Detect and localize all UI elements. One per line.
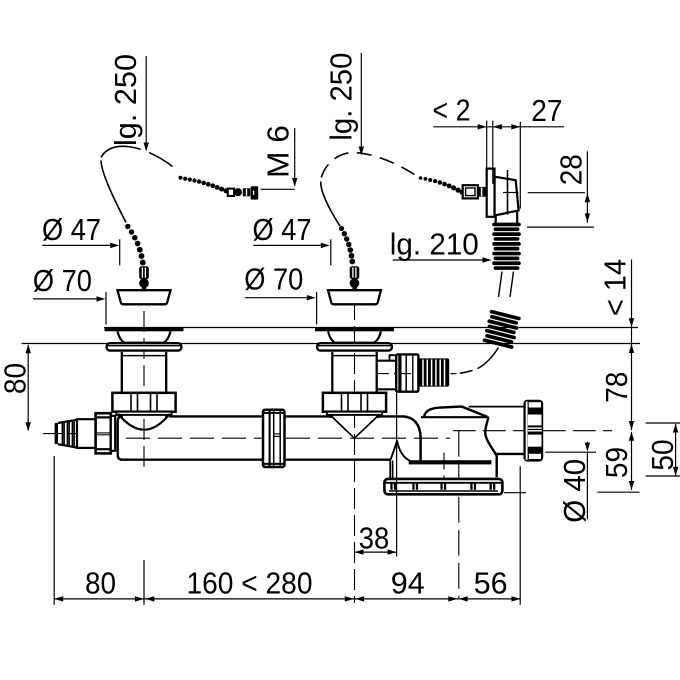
outlet tube top bbox=[469, 406, 524, 408]
wire: elbow inlet centerline bbox=[443, 453, 445, 499]
svg-text:50: 50 bbox=[645, 439, 680, 470]
svg-text:< 2: < 2 bbox=[433, 93, 471, 128]
svg-text:M 6: M 6 bbox=[261, 125, 296, 178]
wire: chain 1 slack arc (dashed) bbox=[101, 146, 173, 166]
chain 2 beads lower run bbox=[339, 226, 355, 265]
wire: trap body centerline bbox=[458, 431, 460, 598]
svg-text:Ø 70: Ø 70 bbox=[33, 263, 92, 298]
sink top line bbox=[104, 327, 638, 329]
pipe top line bbox=[118, 415, 121, 417]
node: left end extension line bbox=[53, 456, 55, 605]
chain 2 toggle at overflow plate bbox=[463, 185, 478, 198]
drain 1 body bbox=[121, 352, 123, 393]
svg-text:28: 28 bbox=[554, 154, 589, 185]
svg-text:56: 56 bbox=[474, 566, 508, 601]
svg-text:80: 80 bbox=[85, 566, 116, 601]
corrugated hose upper section bbox=[492, 223, 521, 270]
drain 1 tailpipe dome in pipe bbox=[121, 415, 123, 417]
trap cup dome top bbox=[424, 407, 488, 418]
svg-text:27: 27 bbox=[531, 93, 562, 128]
drain 2 body bbox=[331, 352, 333, 393]
wire: chain 2 slack arc (dashed) bbox=[321, 153, 417, 178]
hose barb inlet tip bbox=[55, 423, 58, 444]
overflow branch neck bbox=[377, 360, 397, 362]
svg-text:lg. 210: lg. 210 bbox=[390, 227, 479, 262]
svg-text:Ø 47: Ø 47 bbox=[42, 212, 101, 247]
overflow face plate bbox=[487, 169, 495, 217]
plug 1 chain knob bbox=[139, 266, 149, 279]
svg-text:Ø 70: Ø 70 bbox=[244, 261, 303, 296]
chain 1 beads upper run bbox=[179, 176, 229, 194]
svg-text:lg. 250: lg. 250 bbox=[108, 54, 143, 146]
wire: bottom dimension chain line bbox=[54, 598, 520, 600]
overflow branch male thread bbox=[418, 358, 449, 386]
strainer 1 taper bbox=[118, 331, 171, 342]
drain 2 tail cone in pipe bbox=[330, 415, 333, 417]
trap base flare cusp bbox=[391, 441, 411, 462]
pipe body left mouth bbox=[118, 416, 123, 459]
svg-text:< 14: < 14 bbox=[598, 259, 633, 316]
svg-text:94: 94 bbox=[391, 566, 425, 601]
node: drain 2 centerline bbox=[354, 272, 356, 603]
strainer flange 1 top bar bbox=[105, 327, 184, 331]
trap inlet fillet from pipe bbox=[403, 416, 421, 460]
overflow funnel neck bbox=[495, 215, 497, 223]
wire: chain 1 cord near plug bbox=[101, 161, 126, 223]
svg-text:Ø 47: Ø 47 bbox=[253, 212, 312, 247]
svg-text:59: 59 bbox=[599, 447, 634, 478]
node: overflow hole axis bbox=[503, 192, 519, 194]
sink bottom line bbox=[22, 343, 640, 345]
trap cup bottom bar bbox=[409, 460, 492, 464]
chain 1 beads lower run bbox=[125, 224, 146, 266]
barb cylinder neck bbox=[77, 419, 96, 448]
svg-text:Ø 40: Ø 40 bbox=[557, 459, 592, 523]
plug stopper 1 bbox=[118, 290, 171, 304]
wire: outlet centerline bbox=[453, 430, 612, 432]
corrugated hose lower section bbox=[482, 309, 521, 349]
strainer flange 2 top bar bbox=[315, 327, 394, 331]
node: drain 1 centerline bbox=[143, 311, 145, 470]
inlet nut at pipe left end bbox=[96, 413, 111, 453]
chain 1 M6 screw connector bbox=[228, 189, 234, 196]
outlet wall nut bbox=[523, 400, 543, 462]
plug stopper 2 bbox=[328, 290, 381, 304]
svg-text:lg. 250: lg. 250 bbox=[323, 53, 358, 141]
node: drain 1 centerline extension bbox=[143, 560, 145, 605]
strainer 2 taper bbox=[328, 331, 381, 342]
chain 2 beads upper run bbox=[419, 176, 466, 195]
wire: chain 2 cord near plug bbox=[321, 182, 340, 227]
trap skirt left edge bbox=[389, 461, 391, 479]
overflow branch nut bbox=[396, 354, 418, 391]
svg-text:160 < 280: 160 < 280 bbox=[187, 565, 313, 600]
drain 2 nut bbox=[323, 393, 386, 412]
overflow funnel body bbox=[495, 177, 519, 216]
wire: hose tail to branch bbox=[478, 348, 499, 369]
strainer 2 lower band bbox=[317, 343, 392, 350]
node: wall outlet extension line bbox=[519, 466, 521, 605]
coupler nut on pipe bbox=[263, 410, 285, 467]
trap clamp ring bbox=[384, 479, 502, 494]
svg-text:78: 78 bbox=[599, 372, 634, 403]
plug 2 chain knob bbox=[350, 266, 360, 279]
pipe bottom line bbox=[120, 459, 391, 461]
wire: barb inlet centerline bbox=[43, 433, 119, 435]
wire: main pipe centerline bbox=[126, 437, 450, 439]
strainer 1 lower band bbox=[107, 343, 182, 350]
wire: hose middle link bbox=[499, 272, 503, 298]
drain 1 nut bbox=[112, 393, 175, 412]
outlet tube bottom bbox=[496, 453, 524, 455]
wire: M6 leader foot bbox=[261, 188, 295, 190]
trap cup right wall bbox=[485, 417, 497, 477]
